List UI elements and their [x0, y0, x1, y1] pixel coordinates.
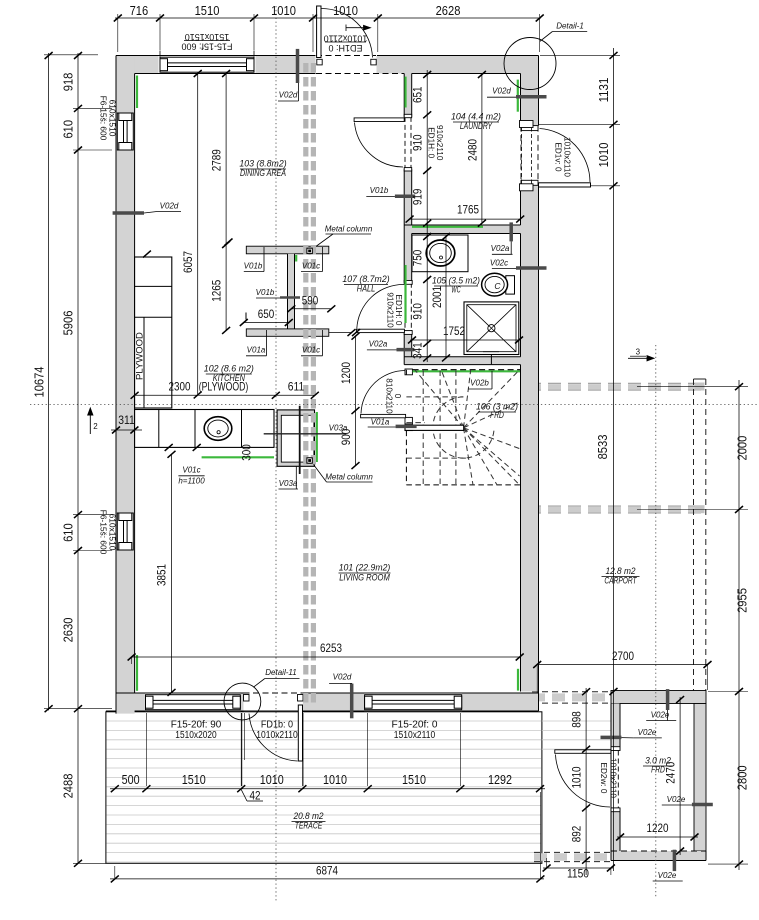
metal column at island [307, 458, 312, 463]
beam marker V02a wc north [509, 222, 513, 241]
metal column upper overlay [307, 248, 312, 253]
south dimension 6253 [132, 656, 520, 658]
kitchen sink [204, 417, 232, 441]
svg-text:341: 341 [411, 342, 425, 359]
svg-text:6253: 6253 [320, 641, 342, 655]
svg-text:2955: 2955 [735, 588, 750, 613]
svg-text:650: 650 [258, 307, 275, 321]
svg-text:1510: 1510 [402, 773, 426, 787]
left inner dimension chain [77, 53, 79, 864]
svg-text:1220: 1220 [647, 821, 669, 835]
svg-text:V02b: V02b [470, 379, 489, 388]
wall exterior north fill [116, 56, 539, 74]
svg-text:1200: 1200 [339, 362, 353, 384]
window reveal ticks north [159, 51, 161, 57]
kitchen wall dimension 311 [111, 429, 142, 431]
svg-text:1265: 1265 [210, 280, 224, 302]
svg-text:1765: 1765 [457, 203, 479, 217]
svg-text:10674: 10674 [32, 367, 47, 398]
beam marker V01b hall-laundry wall [395, 194, 415, 198]
svg-text:311: 311 [118, 413, 135, 427]
left dimension connectors [44, 54, 98, 56]
svg-text:1010x2110: 1010x2110 [256, 730, 298, 741]
wc washbasin [426, 240, 455, 266]
svg-text:810x2110: 810x2110 [384, 378, 393, 414]
svg-text:2: 2 [93, 422, 98, 431]
svg-text:F15-20f: 90: F15-20f: 90 [171, 720, 222, 731]
svg-text:8533: 8533 [595, 435, 610, 460]
terrace extension lines [145, 713, 147, 786]
svg-text:750: 750 [411, 249, 425, 266]
terrace deck outline [106, 712, 542, 864]
partition dimension 650 [244, 322, 289, 324]
door V01a stair leaf and swing [405, 369, 412, 375]
svg-text:898: 898 [570, 711, 584, 728]
svg-text:LAUNDRY: LAUNDRY [460, 121, 493, 131]
door FD1b south leaf and swing [244, 692, 303, 694]
svg-text:F6-15š: 600: F6-15š: 600 [99, 510, 109, 555]
green wall finish lines [137, 76, 518, 691]
svg-text:F6-15š: 600: F6-15š: 600 [99, 96, 109, 141]
svg-text:1510x2110: 1510x2110 [394, 730, 436, 741]
svg-text:V01c: V01c [302, 346, 320, 355]
window F15-20f south-east 1510x2110 [365, 695, 462, 710]
carport roof edge dashed band upper [528, 382, 705, 384]
wall exterior east fill [521, 74, 539, 692]
beam marker V02d west wall [113, 211, 144, 215]
FRD dimension 2470 [679, 697, 681, 855]
svg-text:1510: 1510 [182, 773, 206, 787]
svg-text:V02e: V02e [658, 871, 677, 880]
right dimension chain east wall [613, 48, 615, 871]
wall laundry south fill [404, 225, 520, 234]
svg-text:892: 892 [570, 825, 584, 842]
FRD entry wall north [611, 691, 706, 704]
kitchen dimension 300 green [165, 444, 173, 451]
window F6-15s west lower 610x1510 [117, 513, 133, 550]
FRD entry wall east [694, 704, 706, 852]
svg-text:V02d: V02d [333, 673, 352, 682]
FRD entry wall south dashed [611, 851, 706, 861]
svg-text:2789: 2789 [210, 149, 224, 171]
svg-text:1010x2110: 1010x2110 [609, 758, 618, 798]
svg-text:1010: 1010 [271, 3, 296, 18]
svg-text:3: 3 [636, 348, 641, 357]
kitchen dimension 6057 [197, 74, 199, 395]
svg-text:V02a: V02a [369, 340, 388, 349]
svg-text:V02c: V02c [490, 258, 508, 267]
svg-text:LIVING ROOM: LIVING ROOM [339, 573, 390, 583]
wall hall-laundry-wc fill [404, 74, 412, 358]
carport roof edge dashed band lower [528, 505, 705, 507]
svg-text:20.8 m2: 20.8 m2 [293, 811, 324, 821]
svg-text:6057: 6057 [181, 251, 195, 273]
svg-text:(PLYWOOD): (PLYWOOD) [199, 379, 249, 393]
svg-text:ED1H: 0: ED1H: 0 [394, 295, 403, 326]
svg-text:F15-15f: 600: F15-15f: 600 [181, 42, 232, 52]
top dimension chain [115, 17, 541, 19]
wc dimension 1752 [410, 339, 521, 341]
beam marker V02e FRD north [666, 689, 670, 710]
svg-text:V01b: V01b [256, 288, 275, 297]
svg-text:2488: 2488 [61, 774, 76, 799]
stair handrail center [405, 425, 464, 430]
door ED1v east leaf and swing [520, 126, 522, 186]
svg-text:101 (22.9m2): 101 (22.9m2) [339, 563, 391, 573]
door opening ED1H laundry white [404, 117, 413, 169]
wall exterior south fill [116, 693, 539, 711]
svg-text:651: 651 [411, 86, 425, 103]
svg-text:910: 910 [411, 303, 425, 320]
partition dimension 590 [291, 308, 331, 310]
laundry dimension 2480 [481, 75, 483, 224]
walkway deck boards right of terrace [542, 720, 611, 722]
axis 2 grid line horizontal [30, 404, 759, 406]
svg-text:Detail-1: Detail-1 [556, 22, 584, 31]
svg-text:610: 610 [61, 120, 76, 139]
svg-text:FRD: FRD [490, 410, 504, 420]
dining dimension 2789 1265 [225, 74, 227, 331]
window F6-15s west upper 610x1510 [117, 113, 133, 150]
svg-text:3851: 3851 [155, 564, 169, 586]
walkway dimension 1150 [543, 867, 613, 869]
svg-text:1010x2110: 1010x2110 [563, 137, 572, 177]
metal column at dining partition [307, 248, 312, 253]
svg-text:107 (8.7m2): 107 (8.7m2) [342, 274, 389, 284]
svg-text:1010: 1010 [333, 3, 358, 18]
svg-text:610x1510: 610x1510 [108, 514, 118, 551]
partition stub dining south [246, 329, 328, 336]
FRD dimension chain 898 1010 892 [585, 688, 587, 875]
wc washbasin counter [412, 235, 468, 272]
svg-text:FD1b: 0: FD1b: 0 [261, 720, 294, 731]
svg-text:2800: 2800 [735, 765, 750, 790]
window and door openings south white [145, 692, 241, 711]
detail circle Detail-11 [224, 683, 261, 720]
axis 2 arrow and label [88, 408, 93, 434]
svg-text:PLYWOOD: PLYWOOD [135, 332, 146, 380]
beam marker V02a wc west [397, 348, 415, 352]
laundry wall niche dashed [520, 121, 534, 128]
svg-text:2700: 2700 [612, 649, 634, 663]
right outer dimension chain carport [738, 380, 740, 870]
beam marker V02e FRD east [692, 803, 713, 807]
svg-text:V02e: V02e [667, 795, 686, 804]
svg-text:918: 918 [61, 73, 76, 92]
stair winder rays dashed [415, 370, 464, 428]
section edge line through island [299, 406, 301, 474]
axis 3 arrow and label [628, 356, 654, 361]
window F15-15f north 1510x1510 [160, 57, 254, 72]
svg-text:590: 590 [302, 293, 319, 307]
kitchen counter with sink [135, 410, 274, 448]
wc shower tray [464, 302, 519, 355]
door opening ED1H wc white [404, 283, 413, 330]
stair boundary north with green [413, 370, 520, 372]
carport beam dashed band at house south wall [532, 691, 618, 693]
partition leader line [329, 332, 352, 334]
left outer dimension chain 10674 [48, 53, 50, 710]
svg-text:300: 300 [240, 444, 254, 461]
terrace deck boards [107, 720, 542, 722]
svg-text:910: 910 [411, 134, 425, 151]
svg-text:910x2110: 910x2110 [386, 292, 395, 328]
svg-text:610: 610 [61, 523, 76, 542]
stair treads dashed [406, 370, 519, 485]
beam marker V01a stair door [396, 425, 417, 429]
wc toilet [506, 276, 515, 294]
svg-text:2628: 2628 [436, 3, 461, 18]
svg-text:Metal column: Metal column [325, 473, 373, 482]
right outer chain extensions [637, 386, 748, 388]
beam marker V02e FRD south [673, 850, 677, 871]
hall dimension 1200 900 [355, 336, 357, 465]
svg-text:ED1v: 0: ED1v: 0 [554, 142, 563, 172]
FRD dimension 1220 [617, 836, 698, 838]
terrace dimension 6874 [110, 878, 544, 880]
stair enclosure dashed boundary [405, 431, 407, 485]
FRD entry wall west [611, 704, 620, 856]
svg-text:F15-20f: 0: F15-20f: 0 [392, 720, 438, 731]
svg-text:1752: 1752 [443, 324, 465, 338]
svg-text:2001: 2001 [430, 286, 444, 308]
metal column lower overlay [307, 458, 312, 463]
beam marker V02c wc east [516, 266, 547, 270]
svg-text:2000: 2000 [735, 436, 750, 461]
beam marker V02d south wall [350, 684, 354, 719]
door ED1H north entrance leaf and swing [316, 55, 376, 57]
wall wc south fill [404, 357, 520, 365]
svg-text:Metal column: Metal column [325, 225, 373, 234]
svg-text:500: 500 [122, 773, 140, 787]
svg-text:1010: 1010 [260, 773, 284, 787]
carport post dashed line right [693, 379, 695, 691]
svg-text:V02e: V02e [638, 728, 657, 737]
beam marker V01b mid partition [280, 296, 300, 299]
svg-text:1010: 1010 [323, 773, 347, 787]
detail circle Detail-1 [504, 38, 556, 90]
top dimension extension lines [117, 14, 119, 52]
svg-text:h=1100: h=1100 [178, 477, 205, 486]
window F15-20f south-west 1510x2020 [146, 695, 241, 710]
right chain extension lines [540, 54, 620, 56]
door opening ED2w white [610, 751, 620, 808]
svg-text:V02e: V02e [651, 711, 670, 720]
beam marker V02d north wall [296, 49, 300, 83]
door ED1H laundry leaf and swing [404, 117, 406, 169]
laundry wc dimension chain vertical [426, 70, 428, 362]
svg-text:1010: 1010 [570, 766, 584, 788]
svg-text:V01a: V01a [371, 417, 390, 426]
stair walk line dashed arc [433, 397, 494, 458]
svg-text:2300: 2300 [169, 379, 191, 393]
svg-text:V02a: V02a [491, 244, 510, 253]
door ED2w FRD leaf and swing [617, 751, 619, 808]
svg-text:V02d: V02d [279, 91, 298, 100]
svg-text:1510x2020: 1510x2020 [175, 730, 217, 741]
axis 3 grid line vertical [655, 345, 657, 898]
label ED1H 0 1010x2110 flipped [324, 34, 368, 54]
svg-text:V01c: V01c [302, 261, 320, 270]
section line strip vertical [303, 63, 308, 704]
door opening ED1H north white [316, 55, 377, 74]
label F15-15f 600 1510x1510 flipped [181, 32, 232, 52]
svg-text:1292: 1292 [488, 773, 512, 787]
svg-text:42: 42 [250, 789, 261, 803]
beam marker V03a island [264, 433, 347, 435]
living dimension 3851 [171, 454, 173, 692]
wall exterior west fill [116, 56, 135, 714]
beam marker V02e FRD west [601, 736, 622, 740]
svg-text:12.8 m2: 12.8 m2 [605, 566, 635, 576]
wc dimension 2001 [445, 237, 447, 358]
kitchen island [277, 410, 314, 466]
svg-text:5906: 5906 [61, 311, 76, 336]
svg-text:TERACE: TERACE [295, 821, 323, 831]
partition wall dining-hall vertical [288, 254, 295, 330]
kitchen tall cabinet PLYWOOD [135, 257, 172, 408]
svg-text:V01b: V01b [370, 186, 389, 195]
svg-text:C: C [494, 281, 501, 291]
kitchen dimension 2300 611 [135, 394, 315, 396]
svg-text:610x1510: 610x1510 [108, 100, 118, 137]
svg-text:V01c: V01c [182, 466, 200, 475]
window openings west white [115, 113, 135, 151]
svg-text:DINING AREA: DINING AREA [240, 168, 286, 178]
svg-text:V02d: V02d [160, 202, 179, 211]
door opening ED1v east white [520, 126, 539, 186]
svg-text:900: 900 [339, 428, 353, 445]
carport dimension 2700 [537, 664, 707, 666]
svg-text:Detail-11: Detail-11 [265, 668, 296, 677]
door swing direction arrow north [346, 25, 371, 32]
svg-text:103 (8.8m2): 103 (8.8m2) [239, 159, 286, 169]
svg-text:V03a: V03a [279, 479, 298, 488]
svg-text:ED2w: 0: ED2w: 0 [599, 763, 608, 794]
svg-text:V01b: V01b [244, 261, 263, 270]
svg-text:716: 716 [130, 3, 149, 18]
svg-text:CARPORT: CARPORT [604, 576, 637, 586]
window opening W1 north white [159, 55, 256, 74]
terrace opening dimension chain [110, 788, 545, 790]
svg-text:2630: 2630 [61, 618, 76, 643]
svg-text:1131: 1131 [596, 78, 611, 103]
svg-text:ED1H: 0: ED1H: 0 [328, 43, 362, 53]
svg-text:V02d: V02d [492, 87, 511, 96]
svg-text:1510: 1510 [195, 3, 220, 18]
svg-text:2470: 2470 [664, 761, 678, 783]
svg-text:102 (8.6 m2): 102 (8.6 m2) [204, 364, 254, 374]
svg-text:ED1H: 0: ED1H: 0 [427, 127, 436, 158]
svg-text:919: 919 [411, 188, 425, 205]
carport beam dashed band at terrace south [534, 851, 611, 853]
svg-text:910x2110: 910x2110 [435, 125, 444, 161]
svg-text:2480: 2480 [466, 139, 480, 161]
partition stub dining north [246, 246, 328, 254]
axis grid line vertical x=276 [275, 6, 277, 902]
beam marker V02d laundry east wall [516, 95, 547, 99]
svg-text:611: 611 [288, 379, 305, 393]
main wall edge strokes [106, 56, 539, 714]
door ED1H wc leaf and swing [404, 283, 406, 330]
svg-text:1010: 1010 [596, 143, 611, 168]
svg-text:V01a: V01a [247, 346, 266, 355]
svg-text:104 (4.4 m2): 104 (4.4 m2) [451, 112, 501, 122]
svg-text:WC: WC [451, 285, 460, 295]
svg-text:HALL: HALL [357, 284, 375, 294]
laundry dimension 1765 [410, 218, 521, 220]
svg-text:6874: 6874 [316, 863, 338, 877]
